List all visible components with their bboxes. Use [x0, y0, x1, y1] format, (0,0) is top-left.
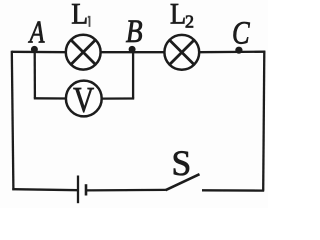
- svg-text:B: B: [126, 13, 143, 50]
- svg-text:A: A: [28, 16, 45, 51]
- wire voltmeter branch right horizontal: [102, 97, 134, 99]
- label L1 subscript 1: [88, 16, 90, 27]
- battery short plate: [85, 184, 88, 195]
- wire top-left: corner to lamp L1: [12, 51, 66, 54]
- svg-text:V: V: [73, 81, 95, 120]
- switch S lever: [166, 174, 200, 190]
- svg-text:L: L: [71, 0, 88, 31]
- wire left vertical: [12, 51, 14, 191]
- wire bottom-right: switch to corner: [202, 189, 264, 192]
- wire voltmeter branch left vertical from A: [34, 52, 37, 98]
- wire bottom-left: corner to battery: [12, 189, 78, 190]
- voltmeter V: [66, 81, 102, 121]
- svg-text:2: 2: [185, 12, 194, 32]
- wire voltmeter branch left horizontal: [34, 97, 66, 99]
- lamp L1: [66, 35, 101, 70]
- wire bottom-middle: battery to switch: [86, 189, 166, 192]
- lamp L2: [164, 35, 199, 70]
- node B: [129, 46, 136, 53]
- svg-text:L: L: [170, 0, 186, 31]
- node C: [235, 47, 242, 54]
- svg-text:S: S: [172, 143, 192, 183]
- battery long plate: [77, 176, 79, 204]
- wire top-middle: L1 to L2: [102, 51, 165, 53]
- node A: [31, 46, 38, 53]
- wire voltmeter branch right vertical to B: [132, 52, 134, 99]
- wire right vertical: [263, 51, 264, 191]
- svg-text:C: C: [232, 15, 251, 51]
- wire top-right: L2 to right corner: [200, 51, 265, 54]
